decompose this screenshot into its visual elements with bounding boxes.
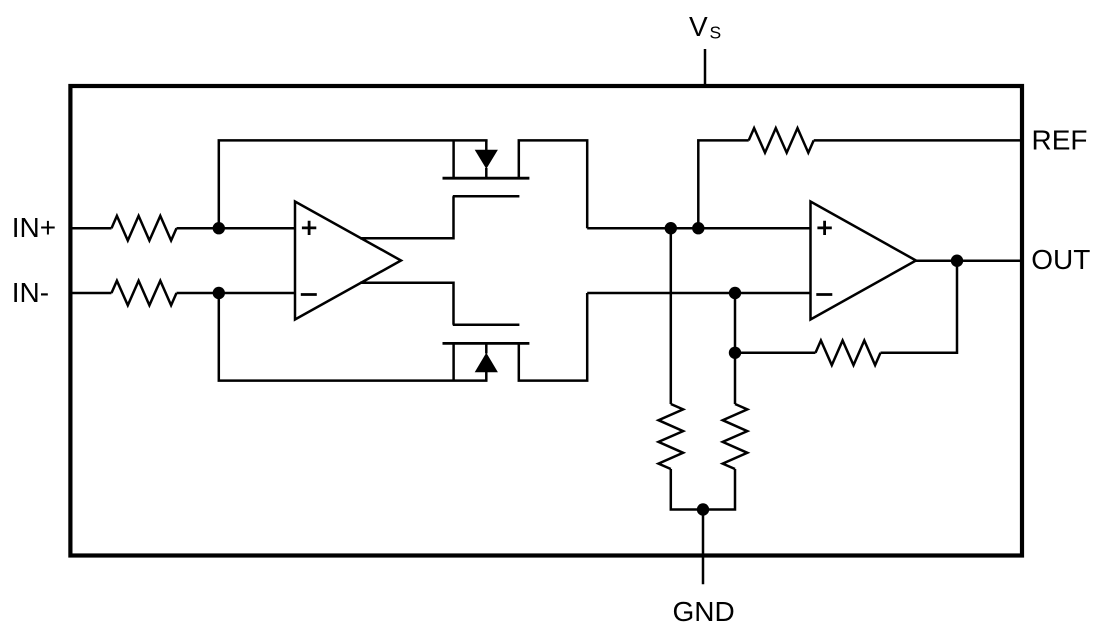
wire R1 to A1 + input xyxy=(177,227,297,230)
A1 plus sign xyxy=(302,221,316,235)
net label VS xyxy=(689,11,721,43)
wire feedback junction down xyxy=(734,353,737,404)
wire A1 output to M1 gate xyxy=(360,196,454,238)
svg-text:V: V xyxy=(689,11,708,42)
svg-text:IN-: IN- xyxy=(12,277,49,308)
svg-text:OUT: OUT xyxy=(1031,244,1090,275)
wire IN+ junction up to top feedback rail xyxy=(219,140,488,228)
wire node B to A2 - input xyxy=(587,292,811,295)
node dot on - wire xyxy=(729,287,741,299)
svg-text:S: S xyxy=(710,23,722,43)
wire OUT junction down to feedback resistor xyxy=(881,261,958,353)
wire left gain leg from + node down xyxy=(670,228,673,404)
resistor R4 (right, to GND) xyxy=(723,404,748,469)
wire R6 to feedback junction xyxy=(735,352,816,355)
resistor R5 (REF) xyxy=(749,128,814,153)
transistor M1 source contact xyxy=(452,140,455,178)
GND stem wire xyxy=(702,510,705,585)
IC boundary box xyxy=(70,86,1022,556)
transistor M2 source contact xyxy=(452,343,455,380)
node dot on + wire (right) xyxy=(692,222,704,234)
node OUT junction dot xyxy=(951,255,963,267)
wire + node up to REF branch xyxy=(698,140,748,228)
wire R2 to A1 - input xyxy=(177,292,297,295)
wire IN- lead xyxy=(69,292,112,295)
svg-text:GND: GND xyxy=(673,596,735,627)
transistor M2 body diode arrow (up) xyxy=(485,343,488,353)
op-amp A1 xyxy=(295,202,401,320)
node IN- junction dot xyxy=(213,287,225,299)
transistor M2 drain contact and wire to node B xyxy=(519,293,587,381)
transistor M2 channel bar xyxy=(443,342,530,345)
resistor R6 (feedback) xyxy=(816,341,881,366)
wire node A to A2 + input xyxy=(587,227,811,230)
resistor R1 (IN+ input) xyxy=(112,216,177,241)
resistor R3 (left, to GND) xyxy=(659,404,684,469)
node dot on + wire (left) xyxy=(665,222,677,234)
wire - node down to feedback junction xyxy=(734,293,737,353)
wire IN- junction down to bottom feedback rail xyxy=(219,293,488,381)
node GND bus dot xyxy=(697,503,709,515)
transistor M1 gate bar xyxy=(453,195,520,198)
node feedback junction dot xyxy=(729,347,741,359)
wire A2 output to OUT port xyxy=(916,259,1022,262)
transistor M1 body diode arrow (down) xyxy=(485,140,488,151)
VS supply stem wire xyxy=(704,49,707,86)
svg-text:IN+: IN+ xyxy=(12,212,56,243)
wire IN+ lead xyxy=(69,227,112,230)
resistor R2 (IN- input) xyxy=(112,281,177,306)
svg-text:REF: REF xyxy=(1032,125,1088,156)
transistor M1 drain contact and wire to node A xyxy=(519,140,587,228)
A1 minus sign xyxy=(301,293,317,296)
A2 minus sign xyxy=(816,293,832,296)
transistor M2 gate bar xyxy=(453,323,520,326)
op-amp A2 xyxy=(811,202,917,320)
GND bus wire joining R3 and R4 xyxy=(671,469,735,510)
wire A1 output to M2 gate xyxy=(360,283,454,325)
transistor M1 channel bar xyxy=(443,177,530,180)
node IN+ junction dot xyxy=(213,222,225,234)
wire R5 to REF port xyxy=(814,139,1022,142)
A2 plus sign xyxy=(817,221,831,235)
